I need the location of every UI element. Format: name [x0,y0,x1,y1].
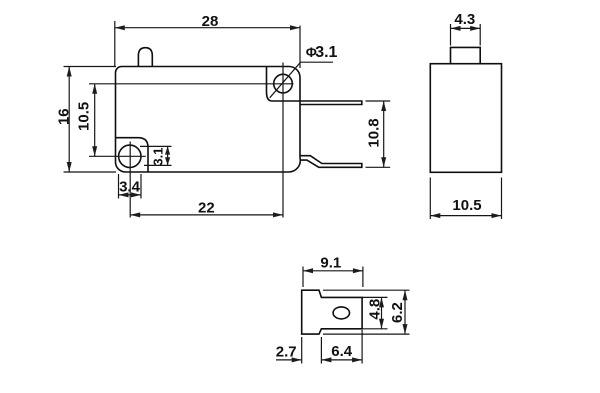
dim 10.5 side extension lines [430,178,501,220]
dim 4.8 line [381,297,383,328]
centerline top-right hole horizontal (also 10.5 top extension) [89,83,294,85]
arrows dim 10.8 [381,101,386,167]
svg-text:9.1: 9.1 [320,254,341,271]
dim 3.1 line [167,146,169,165]
dim 10.8 line [383,101,385,167]
dim 10.5 side line [430,215,501,217]
label 28 [202,13,219,30]
dim 10.8 extension lines [366,101,391,167]
top-right mounting lug [267,67,301,102]
svg-text:28: 28 [202,13,219,30]
label 3.4 [119,179,141,196]
svg-text:3.4: 3.4 [119,179,141,196]
arrows dim 6.2 [403,290,408,334]
arrows dim 10.5 left [92,84,97,157]
arrows dim 3.1 [165,146,170,165]
label 6.4 [331,343,353,360]
arrows dim 28 [115,25,300,30]
bottom-left mounting hole [119,145,141,167]
svg-text:3.1: 3.1 [315,44,337,61]
top terminal [300,101,362,105]
svg-text:10.5: 10.5 [76,102,93,131]
dim 16 extension lines [64,67,117,173]
dim 10.5 line (left) [94,84,96,157]
main view: switch body outline [116,67,301,173]
svg-text:22: 22 [198,200,215,217]
label 10.5 side [452,197,481,214]
dim 3.1 extension lines [140,146,172,165]
centerline top-right hole vertical [282,63,284,218]
label 22 [198,200,215,217]
dim 22 line [130,214,283,216]
dim 6.2 line [404,290,406,334]
arrow dim 2.7 [292,357,302,362]
side view: button [451,47,481,63]
dim 6.2 extension lines [323,290,410,334]
centerline bottom-left hole vertical [129,142,131,218]
dim 9.1 line [303,270,363,272]
bottom view: oval hole [333,307,349,319]
bottom view: terminal plate outline [302,290,362,334]
svg-text:10.8: 10.8 [366,118,383,147]
dim 4.3 line [451,27,481,29]
arrows dim 3.4 [119,192,142,197]
arrows dim 4.8 [379,297,384,328]
label 9.1 [320,254,341,271]
dim 16 line [68,67,70,173]
arrows dim 16 [67,67,72,173]
label 2.7 [276,344,297,361]
side view: body [430,64,501,173]
label 10.8 (rotated) [366,118,383,147]
dim 2.7 extension lines [302,337,322,364]
bottom-left mounting lug [116,138,149,172]
svg-text:6.2: 6.2 [389,302,406,323]
svg-text:4.3: 4.3 [454,11,475,28]
plunger button on main view [138,48,152,67]
dim 6.4 right extension [361,330,363,364]
svg-text:3.1: 3.1 [150,148,165,166]
arrows dim 9.1 [303,268,363,273]
dim 4.3 extension lines [451,24,481,46]
svg-text:10.5: 10.5 [452,197,481,214]
svg-text:16: 16 [55,108,72,125]
arrows dim 6.4 [321,357,362,362]
dim 4.8 extension lines [362,297,387,328]
dim 2.7 line [276,359,302,361]
label 16 (rotated) [55,108,72,125]
leader line for hole diameter [270,62,333,98]
svg-text:2.7: 2.7 [276,344,297,361]
label 6.2 (rotated) [389,302,406,323]
arrows dim 22 [130,212,283,217]
dim 28 extension lines [115,21,300,68]
bottom terminal (cranked) [300,156,362,168]
svg-text:4.8: 4.8 [367,299,384,320]
top-right mounting hole [274,74,293,93]
svg-text:6.4: 6.4 [331,343,353,360]
dim 28 line [115,27,300,29]
dim 3.4 line [119,194,142,196]
dim 6.4 line [321,359,362,361]
label 4.8 (rotated) [367,299,384,320]
dim 9.1 extension lines [303,267,363,288]
label 4.3 [454,11,475,28]
label 3.1 (rotated) [150,148,165,166]
dim 3.4 extension lines [119,174,142,199]
label 10.5 (rotated) [76,102,93,131]
centerline bottom-left hole horizontal [89,155,146,157]
arrows dim 4.3 [451,26,481,31]
label phi 3.1 [306,44,338,61]
arrows dim 10.5 side [430,213,501,218]
